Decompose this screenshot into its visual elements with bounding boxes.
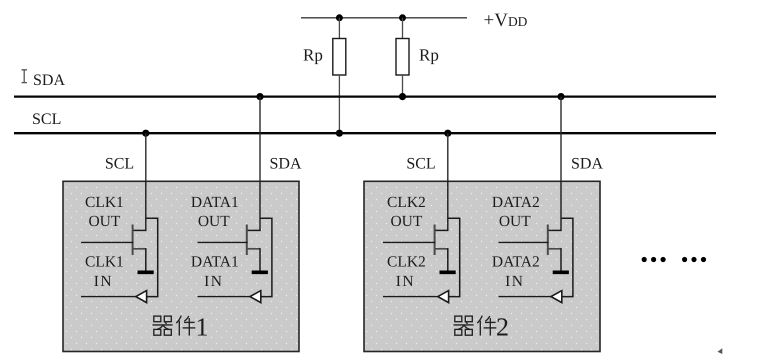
svg-text:CLK1: CLK1	[85, 254, 124, 271]
transistor Q2b (open-drain NMOS): gate bar	[547, 225, 549, 256]
node junction VDD / Rp1	[336, 14, 343, 21]
label DATA1 IN pin	[191, 254, 239, 290]
wire SCL drop to device1	[145, 133, 147, 231]
transistor Q1b (open-drain NMOS): gate bar	[246, 225, 248, 256]
svg-text:SDA: SDA	[33, 72, 65, 89]
svg-text:2: 2	[496, 312, 509, 341]
node junction SCL bus / device1 clock drop	[142, 130, 149, 137]
svg-text:CLK1: CLK1	[85, 194, 124, 211]
label +VDD	[484, 10, 528, 31]
wire SCL drop inside device2	[447, 181, 449, 231]
wire drain-branch to input buffer (device1 clock)	[146, 218, 158, 296]
label DATA2 IN pin	[492, 254, 540, 290]
input buffer B1b (triangle)	[250, 291, 261, 303]
svg-text:SCL: SCL	[406, 155, 435, 172]
label SDA bus name	[33, 72, 65, 89]
wire drain-branch to input buffer (device2 clock)	[448, 218, 460, 296]
svg-text:IN: IN	[204, 273, 223, 290]
wire drain-branch to input buffer (device1 data)	[260, 218, 272, 296]
svg-text:SDA: SDA	[571, 155, 603, 172]
wire drain-branch to input buffer (device2 data)	[561, 218, 573, 296]
device U1 box (器件1)	[63, 181, 299, 351]
label device name 器件2	[454, 312, 510, 341]
cursor artifact I-beam near SDA label	[22, 70, 28, 83]
wire +VDD supply rail	[301, 17, 467, 19]
label CLK1 IN pin	[85, 254, 124, 290]
svg-text:1: 1	[196, 312, 209, 341]
wire IN line to buffer B2a	[383, 296, 439, 298]
svg-text:IN: IN	[94, 273, 113, 290]
wire drain lead of Q2b	[548, 229, 562, 231]
ground GND (DATA1 source)	[252, 270, 268, 274]
ground GND (DATA2 source)	[553, 270, 569, 274]
input buffer B1a (triangle)	[136, 291, 147, 303]
wire SDA drop to device1 (crosses SCL bus)	[259, 97, 261, 231]
label CLK2 IN pin	[387, 254, 426, 290]
transistor Q1a (open-drain NMOS): gate bar	[132, 225, 134, 256]
wire IN line to buffer B2b	[499, 296, 553, 298]
label SCL bus name	[32, 111, 61, 128]
svg-text:Rp: Rp	[303, 46, 323, 65]
svg-text:+VDD: +VDD	[484, 10, 528, 31]
node junction Rp1 / SCL bus	[336, 130, 343, 137]
node junction SDA bus / device2 data drop	[557, 93, 564, 100]
label CLK1 OUT pin	[85, 194, 124, 230]
wire SDA drop inside device1	[259, 181, 261, 231]
wire gate line from OUT driver to Q2a	[383, 241, 435, 243]
label Rp2 value "Rp"	[419, 46, 439, 65]
wire SCL drop inside device1	[145, 181, 147, 231]
label device name 器件1	[153, 312, 209, 341]
wire Rp2 top lead	[402, 18, 404, 39]
svg-text:CLK2: CLK2	[387, 194, 426, 211]
node junction Rp2 / SDA bus	[399, 93, 406, 100]
wire Rp1 top lead	[338, 18, 340, 39]
svg-text:Rp: Rp	[419, 46, 439, 65]
artifact small mark bottom right	[718, 348, 723, 354]
svg-text:OUT: OUT	[88, 213, 120, 230]
label Rp1 value "Rp"	[303, 46, 323, 65]
wire IN line to buffer B1b	[198, 296, 252, 298]
wire gate line from OUT driver to Q1b	[198, 241, 248, 243]
node junction SDA bus / device1 data drop	[256, 93, 263, 100]
wire gate line from OUT driver to Q2b	[499, 241, 549, 243]
svg-text:IN: IN	[396, 273, 415, 290]
label SDA pin wire device1	[269, 155, 301, 172]
svg-text:DATA1: DATA1	[191, 194, 239, 211]
node junction SCL bus / device2 clock drop	[444, 130, 451, 137]
ground GND (CLK1 source)	[138, 270, 154, 274]
ground GND (CLK2 source)	[440, 270, 456, 274]
svg-text:IN: IN	[505, 273, 524, 290]
wire SDA bus line	[14, 95, 716, 97]
svg-text:CLK2: CLK2	[387, 254, 426, 271]
wire SCL bus line	[14, 132, 716, 134]
transistor Q1a source lead	[133, 248, 146, 271]
transistor Q2b source lead	[548, 248, 561, 271]
wire SDA drop to device2 (crosses SCL bus)	[560, 97, 562, 231]
wire drain lead of Q1a	[133, 229, 147, 231]
wire drain lead of Q1b	[247, 229, 261, 231]
wire IN line to buffer B1a	[81, 296, 137, 298]
transistor Q2a (open-drain NMOS): gate bar	[434, 225, 436, 256]
label DATA2 OUT pin	[492, 194, 540, 230]
input buffer B2b (triangle)	[551, 291, 562, 303]
svg-text:DATA2: DATA2	[492, 194, 540, 211]
svg-text:OUT: OUT	[390, 213, 422, 230]
transistor Q2a source lead	[435, 248, 448, 271]
wire SCL drop to device2	[447, 133, 449, 231]
wire gate line from OUT driver to Q1a	[81, 241, 133, 243]
label DATA1 OUT pin	[191, 194, 239, 230]
label CLK2 OUT pin	[387, 194, 426, 230]
svg-text:DATA2: DATA2	[492, 254, 540, 271]
wire Rp2 bottom lead to SDA bus	[402, 75, 404, 97]
node junction VDD / Rp2	[399, 14, 406, 21]
wire Rp1 bottom lead down to SCL bus (crosses SDA, no join)	[338, 75, 340, 133]
node continuation ellipsis (more devices)	[642, 257, 707, 262]
device U2 box (器件2)	[364, 181, 600, 351]
svg-text:OUT: OUT	[499, 213, 531, 230]
svg-text:DATA1: DATA1	[191, 254, 239, 271]
label SCL pin wire device2	[406, 155, 435, 172]
label SDA pin wire device2	[571, 155, 603, 172]
resistor Rp1 (pull-up, SCL)	[333, 39, 346, 76]
resistor Rp2 (pull-up, SDA)	[396, 39, 409, 76]
transistor Q1b source lead	[247, 248, 260, 271]
label SCL pin wire device1	[105, 155, 134, 172]
svg-text:OUT: OUT	[198, 213, 230, 230]
wire drain lead of Q2a	[435, 229, 449, 231]
svg-text:SCL: SCL	[105, 155, 134, 172]
svg-text:SCL: SCL	[32, 111, 61, 128]
wire SDA drop inside device2	[560, 181, 562, 231]
svg-text:SDA: SDA	[269, 155, 301, 172]
input buffer B2a (triangle)	[438, 291, 449, 303]
